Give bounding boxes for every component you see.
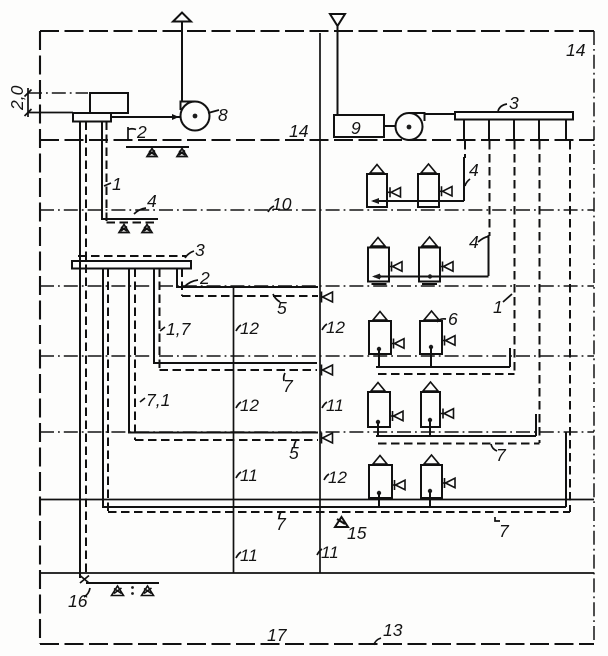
leader 3 right bbox=[498, 104, 507, 111]
floor3 vent triangle B bbox=[424, 311, 439, 320]
branch P4 solid bbox=[154, 269, 317, 364]
floor5 valve A bbox=[393, 480, 406, 490]
leader 7 duct5 bbox=[279, 512, 281, 519]
tick 11 left floor6 bbox=[236, 552, 241, 558]
building outline top border bbox=[40, 30, 594, 32]
riser 1 dashed bbox=[464, 141, 466, 158]
svg-text:7: 7 bbox=[283, 376, 294, 396]
riser 2 solid drop to floor2 branch bbox=[488, 235, 490, 276]
leader 7 floor4 bbox=[491, 444, 497, 451]
svg-text:2,0: 2,0 bbox=[7, 85, 27, 111]
svg-text:4: 4 bbox=[147, 191, 157, 211]
floor3 connection dot A bbox=[377, 347, 381, 351]
floor4 drop stub A bbox=[377, 422, 379, 436]
floor4 valve B bbox=[441, 409, 454, 419]
riser 1 solid drop to floor1 branch bbox=[463, 157, 465, 201]
floor1 heater box A bbox=[367, 174, 387, 207]
outlet 16 end squiggle bbox=[80, 576, 89, 584]
svg-text:7: 7 bbox=[499, 521, 510, 541]
leader 7 floor5 bbox=[495, 517, 500, 521]
floor5 drop stub A bbox=[378, 493, 380, 507]
riser 3 solid drop to floor3 branch bbox=[509, 348, 511, 367]
svg-text:12: 12 bbox=[240, 319, 259, 338]
left distribution manifold 3 bbox=[72, 261, 191, 269]
fan (right) circle bbox=[396, 113, 423, 140]
floor5 heater box A bbox=[369, 465, 392, 498]
floor3 heater box B bbox=[420, 321, 442, 354]
floor2 heater box B bbox=[419, 248, 440, 282]
riser 3 stub below manifold bbox=[513, 120, 515, 142]
intake 4 grille triangle left bbox=[119, 225, 129, 233]
floor2 box A foot bbox=[372, 283, 387, 285]
floor2 box B foot bbox=[422, 283, 437, 285]
branch P3 dashed bbox=[135, 269, 318, 441]
leader 1 riser bbox=[503, 294, 512, 302]
svg-text:4: 4 bbox=[469, 232, 479, 252]
floor3 valve A bbox=[392, 339, 405, 349]
intake 4 grille triangle right bbox=[142, 225, 152, 233]
floor1 branch duct bbox=[373, 200, 464, 202]
svg-text:11: 11 bbox=[321, 543, 339, 562]
intake stack to unit 9 bbox=[337, 26, 339, 115]
floor1 heater box B bbox=[418, 174, 439, 207]
leader 4 floor1 bbox=[465, 179, 470, 186]
riser 2 stub below manifold bbox=[488, 120, 490, 142]
riser 4 solid drop to floor4 branch bbox=[535, 414, 537, 436]
dimension 2.0 vertical bbox=[27, 88, 29, 117]
svg-text:11: 11 bbox=[326, 396, 344, 415]
svg-text:3: 3 bbox=[509, 93, 519, 113]
valve on duct floor4 bbox=[322, 433, 333, 444]
floor line D bbox=[40, 355, 594, 357]
fan (right) volute bbox=[409, 113, 425, 121]
floor1 valve B bbox=[440, 186, 453, 196]
outlet 16 grille rail bbox=[86, 582, 159, 584]
floor5 drop stub B bbox=[429, 491, 431, 507]
svg-text:12: 12 bbox=[240, 396, 259, 415]
unit 9 box bbox=[334, 115, 384, 137]
exhaust triangle above fan 8 bbox=[173, 13, 191, 22]
branch P4 dashed bbox=[160, 269, 318, 371]
valve on duct floor3 bbox=[322, 365, 333, 376]
branch P2 dashed bbox=[107, 269, 109, 513]
floor line C bbox=[40, 285, 594, 287]
leader 1 bbox=[104, 183, 111, 186]
roof line floor A bbox=[40, 139, 594, 141]
fan 8 volute bbox=[181, 102, 196, 111]
svg-text:17: 17 bbox=[267, 625, 288, 645]
svg-text:7: 7 bbox=[496, 445, 507, 465]
fan 8 hub dot bbox=[193, 114, 198, 119]
intake triangle above stack 9 bbox=[330, 14, 345, 26]
dimension 2.0 line upper bbox=[28, 92, 88, 94]
fan 8 support rail bbox=[126, 146, 189, 148]
floor4 heater box A bbox=[368, 392, 390, 427]
leader 13 bbox=[374, 638, 381, 645]
tick 12 left floor4 bbox=[236, 402, 241, 408]
leader 7 floor3 left bbox=[284, 373, 285, 381]
floor2 connection dot A bbox=[377, 274, 381, 278]
svg-text:11: 11 bbox=[240, 546, 258, 565]
duct pedestal lower slab bbox=[73, 113, 111, 122]
svg-text:6: 6 bbox=[448, 309, 458, 329]
support triangle right under fan 8 bbox=[177, 149, 187, 157]
building outline right border bbox=[593, 31, 595, 644]
fan (right) hub dot bbox=[407, 125, 412, 130]
floor5 connection dot A bbox=[377, 491, 381, 495]
svg-text:1,7: 1,7 bbox=[166, 319, 192, 339]
svg-text:7,1: 7,1 bbox=[146, 390, 170, 410]
duct pedestal upper box bbox=[90, 93, 128, 113]
riser 5 solid lower run bbox=[565, 432, 567, 507]
floor3 drop stub B bbox=[430, 347, 432, 367]
svg-text:14: 14 bbox=[566, 40, 586, 60]
L-duct to intake 4 dashed bbox=[107, 122, 159, 223]
floor5 valve B bbox=[443, 478, 456, 488]
svg-text:4: 4 bbox=[469, 160, 479, 180]
branch P5 dashed bbox=[182, 269, 318, 297]
floor3 branch duct dashed bbox=[378, 373, 515, 375]
floor1 branch arrow bbox=[371, 198, 379, 204]
main drop duct dashed companion bbox=[85, 122, 87, 576]
branch P2 solid bbox=[103, 269, 566, 508]
floor3 drop stub A bbox=[378, 349, 380, 367]
floor2 valve A bbox=[390, 262, 403, 272]
floor3 branch duct solid bbox=[376, 366, 510, 368]
main drop duct solid (pedestal to cellar) bbox=[79, 122, 81, 579]
building outline bottom border bbox=[40, 643, 594, 645]
bracket for label 2 (gap) bbox=[128, 127, 136, 140]
floor4 vent triangle B bbox=[423, 382, 438, 391]
leader 10 bbox=[268, 206, 274, 212]
outlet 16 grille triangle right bbox=[142, 586, 154, 596]
duct from pedestal to fan 8 bbox=[111, 116, 181, 118]
dimension tick lower bbox=[25, 109, 32, 116]
leader 5 floor2 bbox=[273, 294, 280, 302]
leader 4 left bbox=[134, 208, 146, 214]
svg-text:7: 7 bbox=[276, 514, 287, 534]
svg-text:13: 13 bbox=[383, 620, 403, 640]
long duct 5 dashed bottom bbox=[108, 511, 570, 513]
floor4 connection dot A bbox=[376, 420, 380, 424]
floor2 valve B bbox=[441, 262, 454, 272]
floor3 connection dot B bbox=[429, 345, 433, 349]
svg-text:15: 15 bbox=[347, 523, 367, 543]
tick 12 right floor3 bbox=[322, 324, 327, 330]
leader 6 bbox=[437, 319, 446, 322]
floor2 branch duct bbox=[374, 276, 489, 278]
leader 3 left bbox=[185, 251, 194, 258]
floor2 branch arrow bbox=[372, 274, 380, 280]
svg-text:1: 1 bbox=[112, 174, 122, 194]
floor line E bbox=[40, 431, 594, 433]
svg-text:16: 16 bbox=[68, 591, 88, 611]
floor line B (10) bbox=[40, 209, 594, 211]
floor1 vent triangle B bbox=[421, 164, 436, 173]
arrow into fan 8 bbox=[172, 114, 179, 120]
dimension tick upper bbox=[25, 90, 32, 97]
svg-text:10: 10 bbox=[272, 194, 292, 214]
riser 5 dashed companion bbox=[569, 141, 571, 512]
leader 1,7 bbox=[160, 327, 165, 331]
svg-text:1: 1 bbox=[493, 297, 503, 317]
floor5 vent triangle B bbox=[424, 455, 439, 464]
floor4 branch duct solid bbox=[376, 435, 536, 437]
floor4 vent triangle A bbox=[371, 383, 385, 392]
riser 4 dashed bbox=[539, 141, 541, 443]
exhaust stack to fan 8 bbox=[181, 22, 183, 103]
outlet 16 grille triangle left bbox=[112, 586, 124, 596]
building outline left border bbox=[39, 31, 41, 644]
svg-text:3: 3 bbox=[195, 240, 205, 260]
floor2 heater box A bbox=[368, 248, 389, 282]
svg-text:12: 12 bbox=[328, 468, 347, 487]
branch P3 solid bbox=[129, 269, 318, 433]
leader 16 bbox=[84, 588, 90, 597]
tick 11 right floor4 bbox=[322, 402, 327, 408]
riser 3 dashed bbox=[514, 141, 516, 374]
tick 12 right floor5 bbox=[324, 474, 329, 480]
floor5 heater box B bbox=[421, 465, 442, 498]
svg-text:14: 14 bbox=[289, 121, 309, 141]
dashed feed above left manifold bbox=[78, 255, 186, 257]
svg-text:2: 2 bbox=[136, 122, 147, 142]
floor2 connection dot B bbox=[428, 274, 432, 278]
right supply manifold 3 bbox=[455, 112, 573, 120]
leader 7,1 bbox=[140, 398, 145, 402]
floor2 vent triangle A bbox=[371, 238, 385, 247]
svg-text:11: 11 bbox=[240, 466, 258, 485]
floor3 valve B bbox=[443, 336, 456, 346]
svg-text:8: 8 bbox=[218, 105, 228, 125]
floor1 vent triangle A bbox=[370, 165, 384, 174]
tick 11 left floor5 bbox=[236, 472, 241, 478]
floor4 valve A bbox=[391, 411, 404, 421]
branch P5 solid bbox=[177, 269, 318, 288]
leader 5 floor4 bbox=[294, 441, 296, 448]
tick 11 right floor6 bbox=[317, 549, 322, 555]
relief triangle 15 bbox=[335, 517, 348, 527]
floor4 drop stub B bbox=[429, 420, 431, 436]
leader for 8 bbox=[208, 110, 219, 113]
interior wall x=320 bbox=[319, 33, 321, 573]
floor3 vent triangle A bbox=[373, 312, 387, 321]
floor line F bbox=[40, 499, 594, 501]
riser 1 stub below manifold bbox=[463, 120, 465, 142]
duct fan to right manifold bbox=[425, 113, 456, 115]
interior wall x=233 bbox=[233, 287, 235, 573]
L-duct to intake 4 solid bbox=[102, 122, 158, 220]
riser 2 dashed bbox=[489, 141, 491, 236]
riser 5 stub below manifold bbox=[565, 120, 567, 142]
duct unit 9 to fan bbox=[384, 125, 396, 127]
floor4 heater box B bbox=[421, 392, 440, 427]
floor5 connection dot B bbox=[428, 489, 432, 493]
valve on duct floor2 bbox=[322, 292, 333, 303]
floor line G bbox=[40, 572, 594, 574]
leader 2 branch bbox=[184, 280, 198, 287]
floor2 vent triangle B bbox=[422, 237, 437, 246]
colon mark between grilles bbox=[131, 586, 134, 589]
svg-text:12: 12 bbox=[326, 318, 345, 337]
svg-text:9: 9 bbox=[351, 118, 361, 138]
floor4 branch duct dashed bbox=[378, 443, 540, 445]
floor1 valve A bbox=[388, 187, 401, 197]
tick 12 left floor3 bbox=[236, 325, 241, 331]
riser 4 stub below manifold bbox=[538, 120, 540, 142]
floor4 connection dot B bbox=[428, 418, 432, 422]
support triangle left under fan 8 bbox=[147, 149, 157, 157]
floor3 heater box A bbox=[369, 321, 391, 354]
fan 8 circle bbox=[181, 102, 210, 131]
floor5 vent triangle A bbox=[373, 456, 387, 465]
dimension 2.0 line lower bbox=[28, 112, 73, 114]
leader 4 floor2 bbox=[478, 237, 489, 243]
svg-text:2: 2 bbox=[199, 268, 210, 288]
